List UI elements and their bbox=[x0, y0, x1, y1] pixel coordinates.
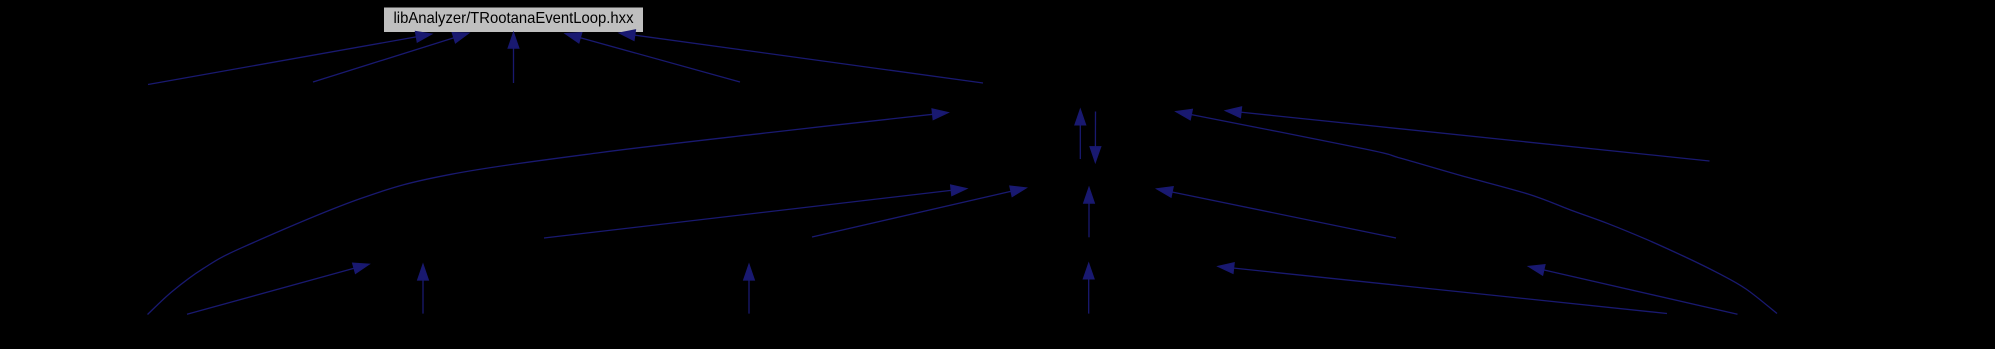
edge V-down row2 to row3 bbox=[1090, 112, 1101, 163]
edge L2 to TRootanaEventLoop.hxx bbox=[313, 33, 469, 83]
edge L1 to TRootanaEventLoop.hxx bbox=[148, 31, 432, 84]
edge V-up row3 to row2 bbox=[1075, 109, 1086, 159]
edge A7 to row3 bbox=[812, 186, 1027, 237]
edge L3 to TRootanaEventLoop.hxx bbox=[508, 32, 519, 83]
edge A6 to row3 bbox=[544, 185, 967, 238]
node libAnalyzer/TRootanaEventLoop.hxx (current file, highlighted) bbox=[384, 7, 644, 33]
edge L5 to TRootanaEventLoop.hxx bbox=[619, 30, 983, 83]
edge A11 to row4 bbox=[1528, 265, 1737, 315]
edge L4 to TRootanaEventLoop.hxx bbox=[565, 33, 740, 83]
edge A9 to row4 bbox=[187, 263, 369, 314]
edge V3 row5 to row4 bbox=[418, 264, 429, 314]
edge C1 bottom-left to row2 (curved) bbox=[148, 109, 949, 315]
edge A10 to row4 bbox=[1218, 263, 1667, 314]
edge V5 row5 to row4 bbox=[1083, 263, 1094, 314]
edge LA2 to row2 bbox=[1225, 107, 1709, 161]
svg-text:libAnalyzer/TRootanaEventLoop.: libAnalyzer/TRootanaEventLoop.hxx bbox=[394, 10, 634, 27]
edge A8 to row3 bbox=[1157, 187, 1397, 238]
edge V6 row4 to row3 bbox=[1084, 187, 1095, 237]
edge C2 bottom-right to row2 (curved) bbox=[1176, 109, 1777, 313]
edge V4 row5 to row4 bbox=[744, 264, 755, 314]
